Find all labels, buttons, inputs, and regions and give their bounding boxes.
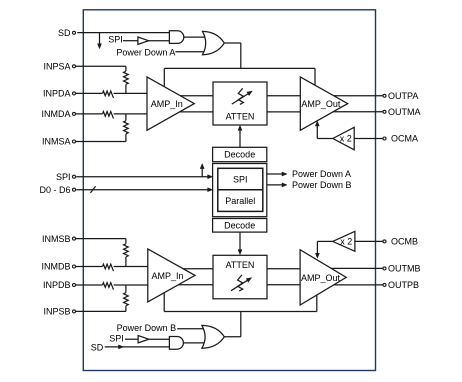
- svg-text:ATTEN: ATTEN: [226, 260, 255, 270]
- svg-text:AMP_In: AMP_In: [151, 99, 183, 109]
- svg-text:AMP_Out: AMP_Out: [301, 273, 341, 283]
- svg-text:Power Down A: Power Down A: [292, 169, 351, 179]
- svg-text:INPDA: INPDA: [43, 89, 71, 99]
- svg-text:INMSB: INMSB: [42, 234, 71, 244]
- svg-text:OUTPA: OUTPA: [388, 91, 418, 101]
- svg-text:SPI: SPI: [109, 334, 124, 344]
- svg-text:SD: SD: [91, 343, 104, 353]
- svg-text:INPSA: INPSA: [43, 62, 70, 72]
- svg-text:Decode: Decode: [224, 150, 255, 160]
- svg-text:INMDA: INMDA: [42, 109, 71, 119]
- svg-text:ATTEN: ATTEN: [226, 112, 255, 122]
- svg-text:Power Down B: Power Down B: [292, 180, 352, 190]
- svg-text:OCMA: OCMA: [391, 134, 418, 144]
- svg-text:INPSB: INPSB: [43, 307, 70, 317]
- svg-text:SPI: SPI: [233, 175, 248, 185]
- svg-text:Power Down B: Power Down B: [117, 323, 177, 333]
- svg-text:SPI: SPI: [108, 35, 123, 45]
- svg-text:OUTMB: OUTMB: [388, 264, 421, 274]
- svg-text:SD: SD: [58, 28, 71, 38]
- svg-text:SPI: SPI: [56, 172, 71, 182]
- svg-text:OUTPB: OUTPB: [388, 280, 419, 290]
- svg-text:x 2: x 2: [340, 134, 352, 144]
- svg-text:AMP_In: AMP_In: [151, 271, 183, 281]
- svg-text:AMP_Out: AMP_Out: [301, 99, 341, 109]
- svg-text:INPDB: INPDB: [43, 280, 71, 290]
- svg-text:INMSA: INMSA: [42, 137, 71, 147]
- svg-text:OCMB: OCMB: [391, 237, 418, 247]
- svg-text:OUTMA: OUTMA: [388, 107, 421, 117]
- svg-text:Power Down A: Power Down A: [116, 47, 175, 57]
- svg-text:D0 - D6: D0 - D6: [39, 185, 70, 195]
- svg-text:x 2: x 2: [340, 237, 352, 247]
- svg-text:Decode: Decode: [224, 221, 255, 231]
- svg-text:INMDB: INMDB: [42, 262, 71, 272]
- svg-text:Parallel: Parallel: [225, 196, 255, 206]
